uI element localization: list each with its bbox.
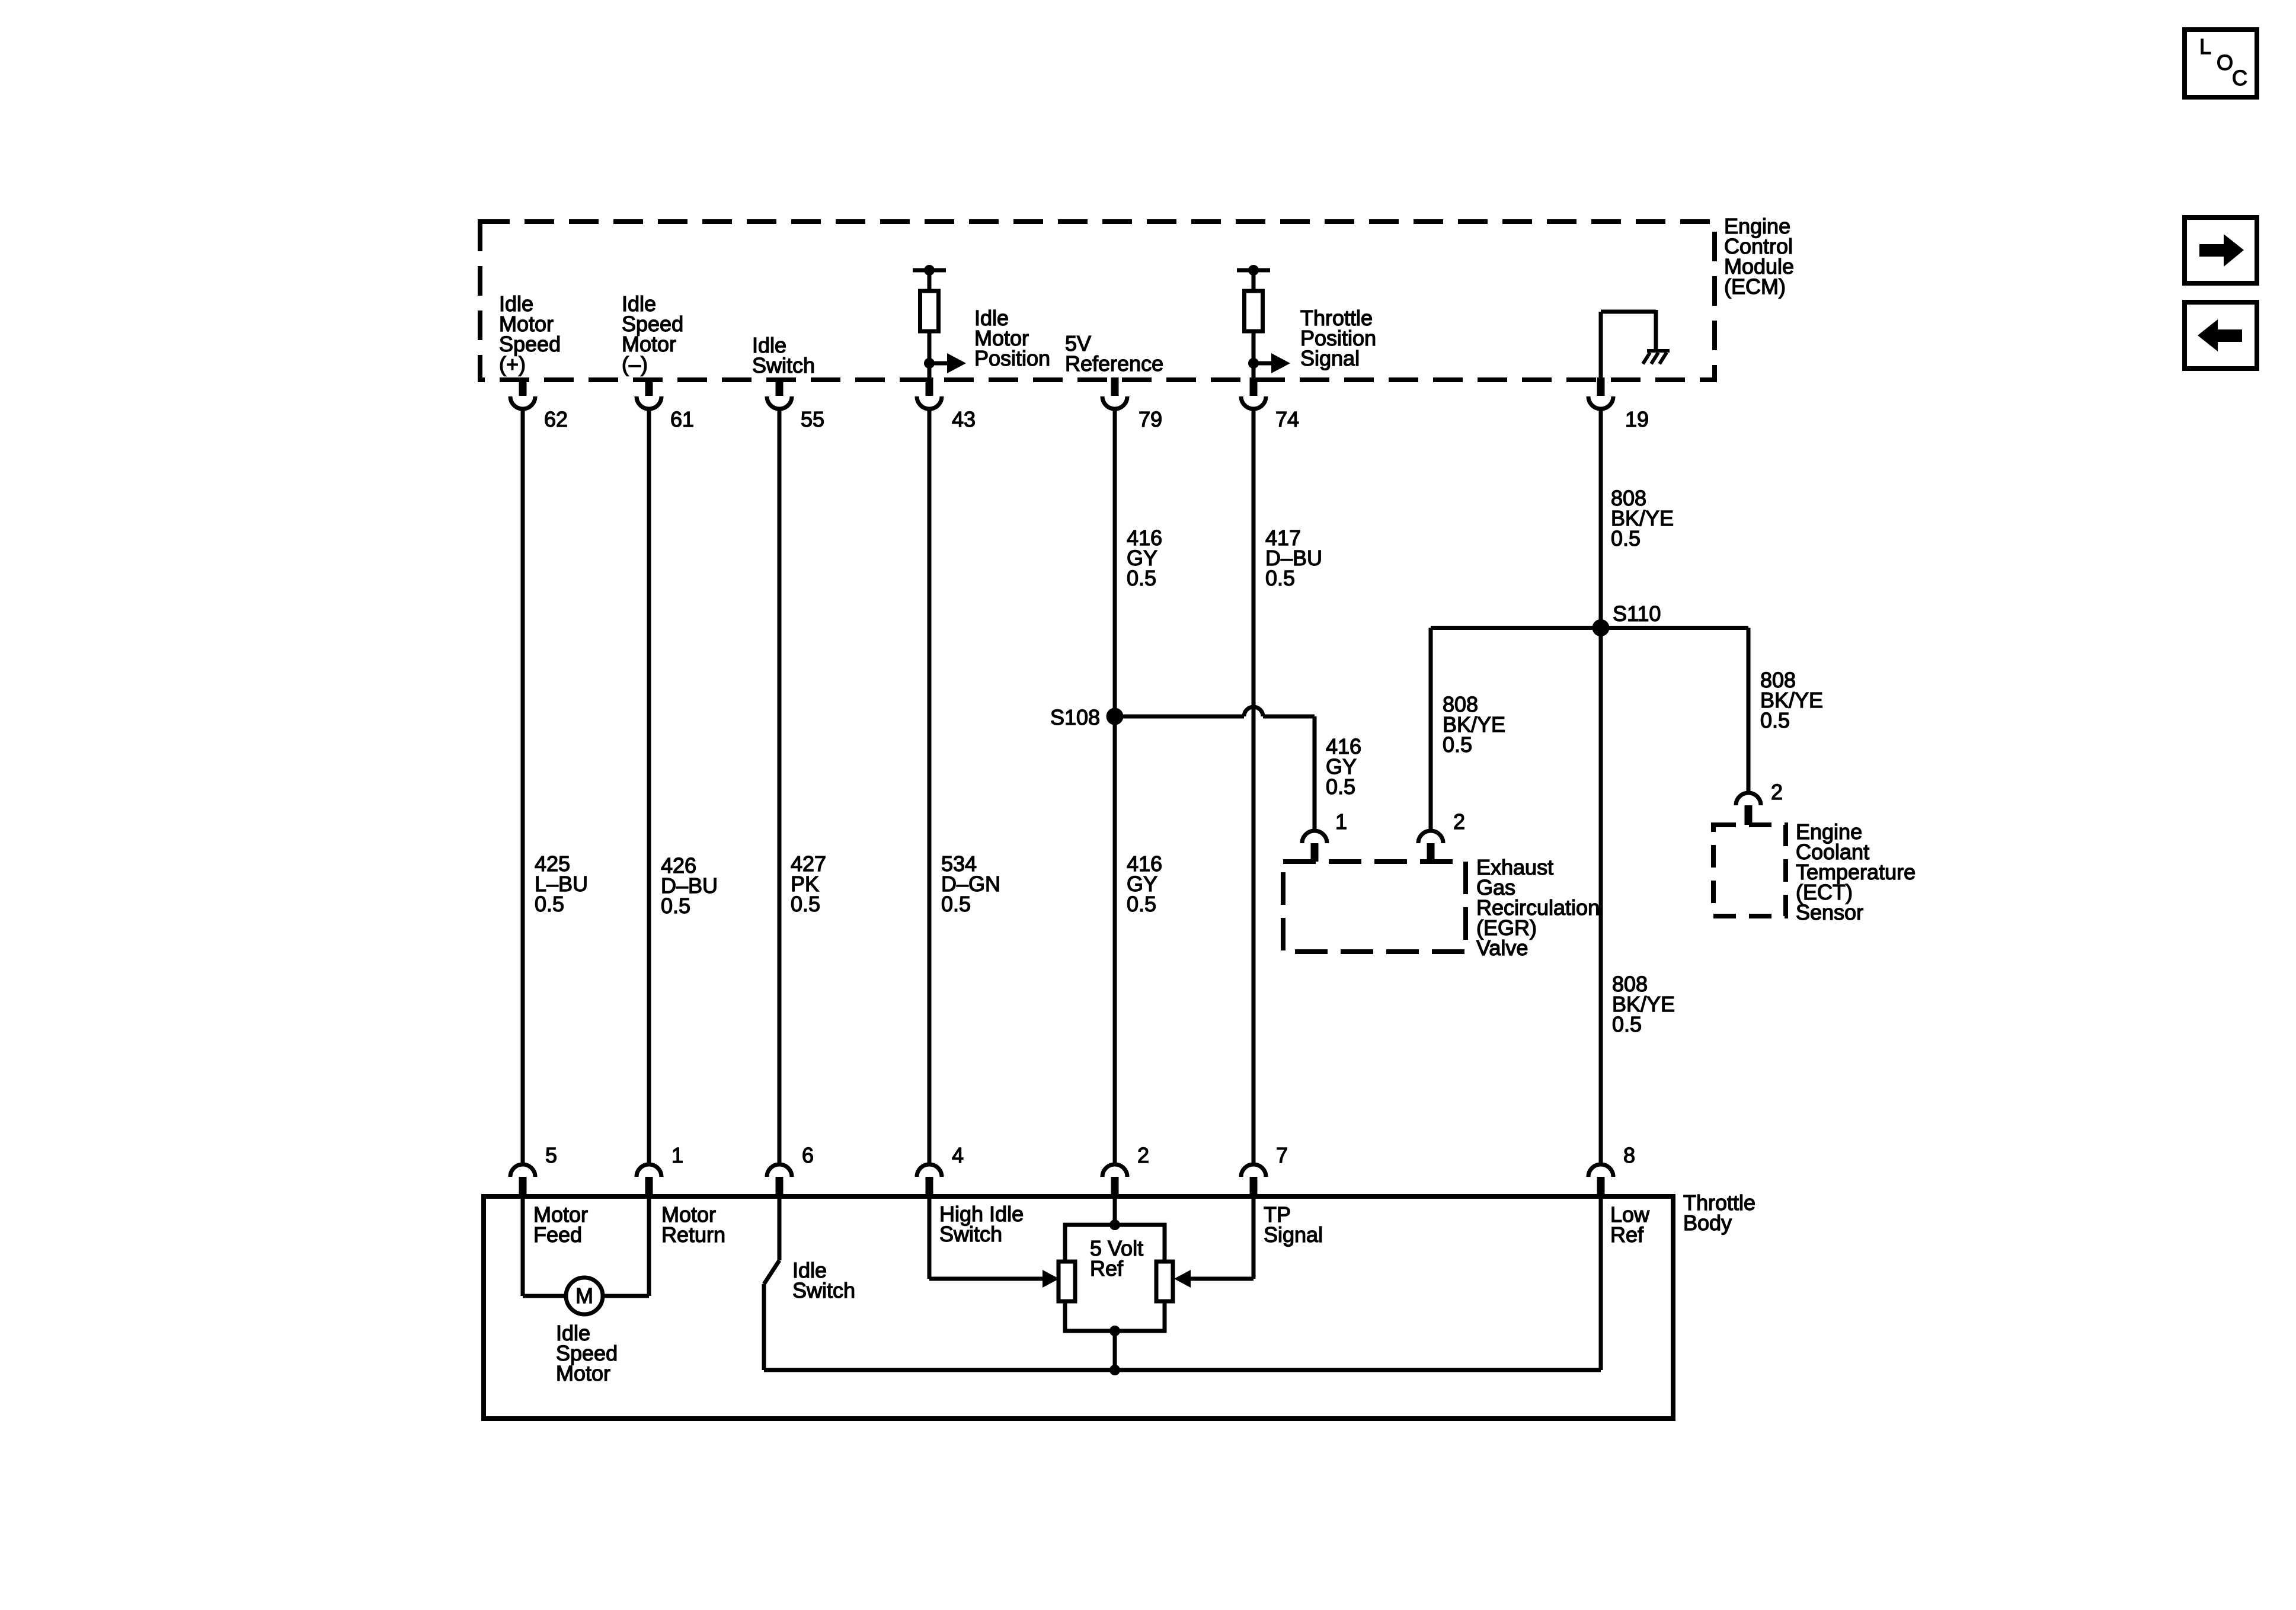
ECM pin 19 stub [1597, 377, 1605, 396]
TB pin 4 stub [926, 1177, 933, 1199]
label Idle Speed Motor [556, 1321, 618, 1385]
wire 427 circuit vertical [778, 409, 782, 1164]
label 425 L-BU 0.5 [535, 852, 588, 916]
label 808 BK/YE 0.5 upper [1611, 486, 1674, 550]
svg-text:LowRef: LowRef [1610, 1202, 1650, 1247]
pin number 74 [1275, 407, 1299, 431]
wire 5V block to low ref line [1113, 1331, 1117, 1370]
label Idle Motor Position [974, 306, 1050, 370]
junction dot 5V top [1109, 1219, 1120, 1230]
TB pin 2 connector [1102, 1164, 1127, 1177]
TB pin 5 stub [519, 1177, 527, 1199]
TB pin 6 stub [776, 1177, 784, 1199]
TB pin number 8 [1623, 1143, 1635, 1167]
svg-text:2: 2 [1771, 780, 1783, 804]
ECT pin 2 stub [1745, 805, 1753, 825]
wire motor feed [523, 1199, 566, 1296]
label 417 D-BU 0.5 [1265, 526, 1322, 590]
label Throttle Body [1683, 1190, 1755, 1235]
ECM internal ground wire [1601, 310, 1656, 380]
EGR pin number 1 [1335, 809, 1347, 834]
TP arrowhead [1174, 1270, 1191, 1288]
svg-text:55: 55 [801, 407, 824, 431]
LOC letters [2199, 34, 2247, 90]
ECT pin number 2 [1771, 780, 1783, 804]
wire 417 circuit vertical [1252, 409, 1256, 1164]
svg-text:79: 79 [1139, 407, 1162, 431]
svg-text:C: C [2232, 66, 2247, 90]
svg-text:5VReference: 5VReference [1065, 331, 1163, 376]
svg-text:O: O [2217, 50, 2233, 75]
svg-text:416GY0.5: 416GY0.5 [1127, 852, 1162, 916]
label 5V Reference [1065, 331, 1163, 376]
TB pin 4 connector [917, 1164, 942, 1177]
svg-text:61: 61 [670, 407, 694, 431]
TB pin number 1 [671, 1143, 683, 1167]
TB pin 8 stub [1597, 1177, 1605, 1199]
ECM pin 79 connector [1102, 396, 1127, 409]
pull-up tee R43 [913, 265, 946, 293]
svg-text:416GY0.5: 416GY0.5 [1127, 526, 1162, 590]
ECM pin 74 connector [1241, 396, 1266, 409]
prev-page arrow [2198, 319, 2242, 351]
label Throttle Position Signal [1300, 306, 1376, 370]
next-page arrow box [2185, 217, 2257, 283]
resistor 5V left [1059, 1262, 1075, 1301]
TB pin 6 connector [767, 1164, 792, 1177]
label Motor Feed [533, 1202, 588, 1247]
TB pin 2 stub [1111, 1177, 1119, 1199]
next-page arrow [2199, 234, 2244, 267]
svg-text:TPSignal: TPSignal [1264, 1202, 1323, 1247]
label Idle Switch (TB) [792, 1258, 855, 1302]
label Idle Switch (ECM) [752, 333, 815, 377]
ECM pin 61 stub [645, 377, 653, 396]
ECT sensor dashed box [1713, 825, 1786, 916]
label 426 D-BU 0.5 [661, 853, 718, 918]
label 808 BK/YE 0.5 lower [1612, 972, 1675, 1036]
junction dot 5V-lowref [1109, 1365, 1120, 1375]
wire 425 circuit vertical [521, 409, 525, 1164]
label 808 BK/YE 0.5 ECT [1760, 668, 1823, 732]
ECM pin 61 connector [637, 396, 661, 409]
label S110 [1613, 601, 1661, 626]
ECT sensor label [1796, 820, 1916, 924]
resistor R43 [920, 291, 939, 331]
label TP Signal [1264, 1202, 1323, 1247]
svg-text:808BK/YE0.5: 808BK/YE0.5 [1443, 692, 1505, 757]
node S108 [1107, 708, 1124, 725]
svg-text:808BK/YE0.5: 808BK/YE0.5 [1612, 972, 1675, 1036]
junction dot 5V bottom [1109, 1326, 1120, 1336]
ECM pin 62 stub [519, 377, 527, 396]
svg-text:43: 43 [952, 407, 976, 431]
svg-text:1: 1 [671, 1143, 683, 1167]
wire TP signal [1189, 1199, 1253, 1279]
prev-page arrow box [2185, 302, 2257, 369]
ECM label [1724, 214, 1794, 299]
wire 534 circuit vertical [928, 409, 932, 1164]
svg-text:2: 2 [1137, 1143, 1149, 1167]
throttle body box [484, 1196, 1673, 1419]
svg-text:ExhaustGasRecirculation(EGR)Va: ExhaustGasRecirculation(EGR)Valve [1476, 855, 1600, 960]
TB pin number 5 [545, 1143, 557, 1167]
TB pin number 4 [952, 1143, 964, 1167]
svg-text:808BK/YE0.5: 808BK/YE0.5 [1760, 668, 1823, 732]
TB pin number 2 [1137, 1143, 1149, 1167]
wire idle switch to low ref [764, 1368, 1601, 1372]
svg-text:426D–BU0.5: 426D–BU0.5 [661, 853, 718, 918]
wire 416 circuit vertical [1113, 409, 1117, 1164]
TB pin number 6 [802, 1143, 814, 1167]
svg-text:IdleSpeedMotor(–): IdleSpeedMotor(–) [622, 292, 683, 376]
label High Idle Switch [939, 1202, 1024, 1246]
resistor 5V right [1156, 1262, 1173, 1301]
label 416 GY 0.5 EGR [1326, 734, 1361, 799]
signal tap dot R74 [1248, 358, 1259, 369]
EGR valve dashed box [1283, 862, 1466, 952]
label Low Ref [1610, 1202, 1650, 1247]
signal arrow R43 [929, 353, 966, 373]
EGR pin 2 connector [1418, 831, 1443, 843]
pin number 19 [1625, 407, 1649, 431]
ECM pin 19 connector [1588, 396, 1613, 409]
ECM pin 79 stub [1111, 377, 1119, 396]
label 416 GY 0.5 lower [1127, 852, 1162, 916]
ECM pin 74 stub [1250, 377, 1258, 396]
TB pin 5 connector [510, 1164, 535, 1177]
svg-text:EngineControlModule(ECM): EngineControlModule(ECM) [1724, 214, 1794, 299]
svg-text:MotorFeed: MotorFeed [533, 1202, 588, 1247]
svg-text:L: L [2199, 34, 2211, 59]
svg-text:425L–BU0.5: 425L–BU0.5 [535, 852, 588, 916]
svg-text:417D–BU0.5: 417D–BU0.5 [1265, 526, 1322, 590]
EGR pin number 2 [1453, 809, 1465, 834]
svg-text:808BK/YE0.5: 808BK/YE0.5 [1611, 486, 1674, 550]
wire S108 to EGR pin 1 [1115, 707, 1315, 831]
pin number 61 [670, 407, 694, 431]
ECM pin 55 stub [776, 377, 784, 396]
TB pin 1 stub [645, 1177, 653, 1199]
idle switch [764, 1199, 779, 1370]
svg-text:534D–GN0.5: 534D–GN0.5 [941, 852, 1000, 916]
ECM pin 62 connector [510, 396, 535, 409]
pull-up tee R74 [1237, 265, 1270, 293]
high idle arrowhead [1043, 1270, 1059, 1288]
svg-text:IdleMotorPosition: IdleMotorPosition [974, 306, 1050, 370]
svg-text:IdleSpeedMotor: IdleSpeedMotor [556, 1321, 618, 1385]
wire 808 circuit vertical [1599, 409, 1603, 1164]
svg-text:4: 4 [952, 1143, 964, 1167]
EGR pin 2 stub [1427, 843, 1435, 862]
ECT pin 2 connector [1736, 793, 1761, 805]
svg-text:8: 8 [1623, 1143, 1635, 1167]
label 416 GY 0.5 upper [1127, 526, 1162, 590]
svg-text:IdleMotorSpeed(+): IdleMotorSpeed(+) [499, 292, 561, 376]
svg-text:1: 1 [1335, 809, 1347, 834]
label 534 D-GN 0.5 [941, 852, 1000, 916]
EGR valve label [1476, 855, 1600, 960]
svg-text:IdleSwitch: IdleSwitch [752, 333, 815, 377]
label 427 PK 0.5 [791, 852, 826, 916]
svg-text:ThrottleBody: ThrottleBody [1683, 1190, 1755, 1235]
ECM dashed box [480, 222, 1715, 380]
TB pin 1 connector [637, 1164, 661, 1177]
label 5 Volt Ref [1090, 1236, 1143, 1281]
TB pin 7 connector [1241, 1164, 1266, 1177]
svg-text:74: 74 [1275, 407, 1299, 431]
svg-text:62: 62 [544, 407, 568, 431]
pin number 55 [801, 407, 824, 431]
svg-text:IdleSwitch: IdleSwitch [792, 1258, 855, 1302]
wire high idle switch [929, 1199, 1044, 1279]
TB pin number 7 [1276, 1143, 1288, 1167]
ECM pin 55 connector [767, 396, 792, 409]
ECM pin 43 stub [926, 377, 933, 396]
wire below resistor R74 [1252, 331, 1256, 380]
label S108 [1050, 705, 1100, 729]
signal arrow R74 [1253, 353, 1290, 373]
label Idle Speed Motor (-) [622, 292, 683, 376]
signal tap dot R43 [924, 358, 935, 369]
pin number 79 [1139, 407, 1162, 431]
svg-text:7: 7 [1276, 1143, 1288, 1167]
TB pin 7 stub [1250, 1177, 1258, 1199]
node S110 [1593, 619, 1610, 636]
resistor R74 [1245, 291, 1263, 331]
svg-text:EngineCoolantTemperature(ECT)S: EngineCoolantTemperature(ECT)Sensor [1796, 820, 1916, 924]
wire 426 circuit vertical [647, 409, 651, 1164]
TB pin 8 connector [1588, 1164, 1613, 1177]
svg-text:5: 5 [545, 1143, 557, 1167]
ECM pin 43 connector [917, 396, 942, 409]
svg-text:High IdleSwitch: High IdleSwitch [939, 1202, 1024, 1246]
idle speed motor M [566, 1278, 603, 1314]
svg-text:5 VoltRef: 5 VoltRef [1090, 1236, 1143, 1281]
svg-text:M: M [575, 1283, 593, 1308]
5 volt ref block [1065, 1225, 1165, 1331]
wire low ref [1599, 1199, 1603, 1370]
svg-text:MotorReturn: MotorReturn [661, 1202, 725, 1247]
pin number 43 [952, 407, 976, 431]
svg-text:S110: S110 [1613, 601, 1661, 626]
svg-text:2: 2 [1453, 809, 1465, 834]
LOC box [2185, 30, 2257, 97]
EGR pin 1 connector [1302, 831, 1327, 843]
pin number 62 [544, 407, 568, 431]
label Motor Return [661, 1202, 725, 1247]
svg-text:416GY0.5: 416GY0.5 [1326, 734, 1361, 799]
wire motor return [603, 1199, 649, 1296]
svg-text:S108: S108 [1050, 705, 1100, 729]
svg-text:ThrottlePositionSignal: ThrottlePositionSignal [1300, 306, 1376, 370]
wire S110 to ECT [1601, 628, 1748, 793]
svg-text:6: 6 [802, 1143, 814, 1167]
wire TB pin 2 to 5V block [1113, 1199, 1117, 1225]
wire below resistor R43 [928, 331, 932, 380]
label 808 BK/YE 0.5 EGR [1443, 692, 1505, 757]
wire S110 to EGR pin 2 [1431, 628, 1601, 831]
svg-text:427PK0.5: 427PK0.5 [791, 852, 826, 916]
ground [1643, 351, 1670, 364]
EGR pin 1 stub [1311, 843, 1319, 862]
label Idle Motor Speed (+) [499, 292, 561, 376]
svg-text:19: 19 [1625, 407, 1649, 431]
